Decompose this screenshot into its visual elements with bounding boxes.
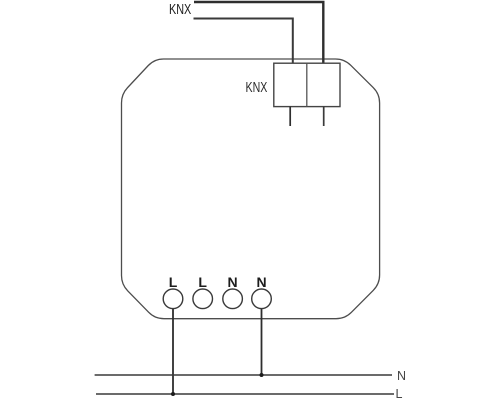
terminal L1 circle [163,289,183,309]
wire KNX bus conductor 1 (top) [194,2,323,63]
wire KNX bus conductor 2 [194,19,293,63]
junction dot at N line [260,373,264,377]
mains N line [95,374,392,376]
svg-text:L: L [396,387,403,400]
KNX connector block divider [306,63,308,106]
wire stub below connector left cell [289,107,291,126]
terminal N3 circle [223,289,243,309]
KNX connector block (two-cell terminal) [274,63,340,106]
wire from terminal N4 down to mains N line [261,309,263,376]
svg-text:N: N [256,274,266,290]
svg-text:KNX: KNX [169,2,192,18]
svg-text:L: L [169,274,178,290]
device body outline (flush-mount actuator, octagonal) [122,59,380,319]
svg-text:N: N [228,274,238,290]
wire from terminal L1 down to mains L line [172,309,174,395]
svg-text:KNX: KNX [246,80,268,96]
svg-text:N: N [397,369,406,383]
terminal N4 circle [252,289,272,309]
svg-text:L: L [198,274,207,290]
mains L line [96,393,394,395]
terminal L2 circle [193,289,213,309]
wire stub below connector right cell [323,107,325,126]
junction dot at L line [171,392,175,396]
